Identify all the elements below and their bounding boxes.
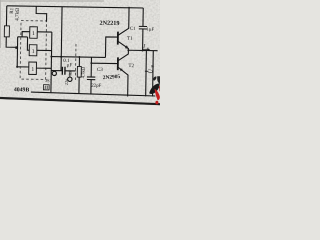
transistor T1 base bar [117,32,119,45]
wire top supply rail [7,6,143,8]
resistor R1 [4,26,9,37]
junction dot [142,49,144,51]
trimmer circle [68,77,72,81]
junction dot [90,62,92,64]
wire T1 base riser [105,37,117,58]
capacitor C3 plates [87,77,95,80]
T2 emitter arrowhead [119,68,122,71]
svg-text:2N2905: 2N2905 [103,74,121,81]
wire R2 top lead [78,57,80,66]
svg-text:1: 1 [32,31,35,37]
wire C1 top lead [142,8,144,26]
T1 emitter arrowhead [125,45,129,49]
svg-text:C1: C1 [130,27,136,32]
inverter U1c [29,62,37,75]
wire output line [128,49,157,51]
wire bias staircase vertical [16,37,18,67]
wire T2 base [91,62,117,64]
svg-text:U: U [148,69,154,74]
svg-text:22p: 22p [64,78,69,85]
crystal holder box [43,85,49,90]
transistor T2 base bar [117,57,119,70]
junction dot [128,7,130,9]
svg-text:4.7kΩ: 4.7kΩ [81,66,86,78]
watermark black stroke [149,83,159,94]
crystal JS1 circle [52,71,56,75]
wire oscillator output vertical [61,7,62,71]
svg-text:4.7kΩ: 4.7kΩ [15,8,21,21]
svg-text:JS1: JS1 [45,78,52,83]
inverter U1b [29,45,37,56]
watermark black glyph a [153,77,157,81]
IC 4049B dashed package box [20,21,46,80]
transistor T2 collector [118,50,128,61]
scan edge light strip [0,99,160,110]
trimmer leg [69,71,71,77]
paper background [0,0,160,110]
watermark black glyph b [157,76,160,84]
wire R1 bottom lead [6,37,18,47]
svg-text:1µF: 1µF [146,28,154,33]
photo bottom border [0,98,160,104]
crystal holder marks [45,86,47,89]
dashed section boundary [74,44,77,80]
watermark red stroke [155,89,160,101]
wire capacitor C2 right lead [65,70,76,72]
wire node to inverter 3 input [17,66,29,68]
wire inverter 2 output [37,49,52,51]
svg-text:C3: C3 [97,68,103,73]
wire output port left [145,51,148,97]
wire feedback jog [36,6,47,21]
wire output bus vertical [50,32,53,92]
page top edge [0,0,104,2]
wire ground rail [31,92,156,96]
resistor R2 [77,66,81,77]
transistor T2 emitter [117,67,128,96]
wire R1 top lead [5,6,7,26]
transistor T1 collector [118,8,129,36]
wire C3 top lead [90,57,92,77]
junction dot [60,56,62,58]
wire C3 bottom lead [90,80,92,95]
svg-text:22pF: 22pF [91,84,101,89]
crystal legs [53,71,55,72]
UB tick [145,70,148,72]
junction dot [127,49,129,51]
junction dot [78,56,80,58]
Ic arrow [143,48,148,50]
transistor T1 emitter [118,41,129,50]
inverter U1a [30,27,38,39]
junction dot [16,66,18,68]
wire C1 bottom lead [142,29,144,51]
junction dot [15,46,18,49]
svg-text:µF: µF [67,63,73,68]
page left edge [0,0,2,48]
svg-text:B: B [150,65,155,68]
wire to inverter 2 input [27,37,29,50]
watermark red dot [155,101,158,105]
svg-text:T2: T2 [128,63,134,69]
wire staircase horizontal [18,36,28,38]
capacitor C2 plates [62,67,65,75]
wire base feed line [51,56,105,59]
svg-text:1: 1 [32,49,35,55]
wire R2 bottom lead [78,77,80,93]
wire inverter 3 output [36,67,51,69]
wire inverter 1 output [37,31,52,33]
junction dot [50,55,52,57]
svg-text:T1: T1 [127,36,133,42]
svg-text:R2: R2 [68,71,73,76]
svg-text:2N2219: 2N2219 [99,20,119,27]
svg-text:4049B: 4049B [14,87,30,93]
capacitor C1 plates [139,26,147,29]
wire output port right [152,51,155,97]
watermark red curl [158,86,161,91]
wire to inverter 1 input [22,32,30,37]
svg-text:1: 1 [31,67,34,73]
wire crystal line [51,70,62,72]
